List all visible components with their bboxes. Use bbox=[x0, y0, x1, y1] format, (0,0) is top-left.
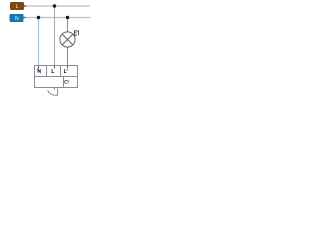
N wire connection nub bbox=[23, 17, 25, 19]
svg-text:N: N bbox=[15, 16, 19, 22]
pin label L' bbox=[64, 69, 67, 72]
device box outline bbox=[35, 66, 78, 88]
divider N|L bbox=[46, 65, 48, 77]
actuator lever bbox=[48, 88, 58, 95]
lamp E1 bbox=[60, 31, 79, 47]
wire L vertical to device bbox=[54, 6, 56, 66]
wire N vertical to device bbox=[38, 18, 40, 66]
svg-text:L: L bbox=[16, 4, 19, 10]
actuator stub bbox=[54, 88, 56, 90]
wire lamp to device L' bbox=[67, 47, 69, 66]
value label C1 bbox=[65, 80, 69, 83]
pin label N bbox=[38, 69, 40, 73]
pin stub N bbox=[38, 66, 40, 69]
node lamp feed on N wire bbox=[66, 16, 69, 19]
L wire connection nub bbox=[24, 5, 26, 7]
node on L wire bbox=[53, 4, 56, 7]
pin label L bbox=[52, 69, 54, 72]
wire lamp feed vertical bbox=[67, 18, 69, 33]
divider L|L' bbox=[60, 65, 62, 77]
pin stub L bbox=[54, 66, 56, 69]
divider C1 compartment bbox=[63, 77, 65, 88]
wire L horizontal bbox=[24, 5, 90, 7]
node on N wire bbox=[37, 16, 40, 19]
wire N horizontal bbox=[24, 17, 91, 19]
pin stub L' bbox=[67, 66, 69, 69]
terminal N bbox=[10, 14, 24, 22]
terminal L bbox=[10, 2, 24, 10]
terminal row separator bbox=[34, 76, 78, 78]
